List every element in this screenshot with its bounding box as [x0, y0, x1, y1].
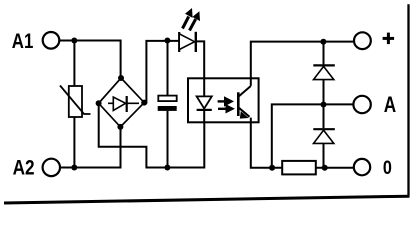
diode D1 [313, 65, 335, 79]
bottom separator line [4, 196, 410, 203]
wire resistor to 0 terminal [316, 167, 354, 169]
wire bridge plus riser to top rail [144, 41, 179, 103]
terminal 0 [354, 159, 370, 175]
LED light arrows [183, 8, 201, 31]
junction dot plus row diode [320, 39, 326, 45]
junction dot bridge top vertex [118, 75, 124, 81]
junction dot bridge right vertex [141, 100, 147, 106]
wire LED cathode to optocoupler anode [197, 41, 204, 96]
junction dot emitter A branch [269, 165, 275, 171]
capacitor C1 [158, 96, 177, 111]
wire bridge minus step to internal ground net [99, 103, 205, 167]
junction dot bottom capacitor [164, 165, 170, 171]
svg-text:A1: A1 [12, 29, 34, 53]
wire opto LED cathode [203, 110, 205, 122]
junction dot bottom varistor [71, 165, 77, 171]
terminal + [354, 32, 371, 49]
resistor R2 [282, 161, 316, 175]
junction dot top rail varistor [71, 38, 77, 44]
svg-text:A: A [384, 92, 396, 117]
junction dot 0 row diode [322, 165, 328, 171]
wire D2 to 0 row [323, 143, 325, 167]
svg-text:A2: A2 [13, 156, 35, 179]
right border line [407, 4, 409, 196]
wire emitter lead to resistor [251, 118, 282, 168]
phototransistor Q1 [238, 86, 251, 119]
junction dot top rail capacitor [164, 38, 170, 44]
label + [383, 33, 395, 45]
varistor R1 [60, 86, 91, 118]
indicator LED [179, 32, 196, 52]
svg-text:0: 0 [383, 157, 392, 179]
terminal A1 [43, 32, 60, 49]
junction dot A row diode [321, 102, 327, 108]
wire A1 top rail [59, 41, 120, 79]
wire A row to D2 [323, 105, 325, 129]
wire A2 bottom to bridge bottom vertex [60, 127, 121, 168]
bridge rectifier [99, 78, 145, 127]
terminal A [353, 96, 370, 113]
wire capacitor top lead [167, 41, 169, 96]
opto light arrows [218, 96, 235, 113]
junction dot bridge left vertex [96, 100, 102, 106]
junction dot bridge bottom vertex [117, 124, 123, 130]
optocoupler U1 box [188, 78, 259, 122]
wire collector riser and plus rail [251, 42, 354, 86]
terminal A2 [43, 159, 60, 176]
wire varistor column lower [73, 117, 75, 168]
wire capacitor bottom lead [167, 111, 169, 168]
wire D1 to A row [323, 80, 325, 105]
opto LED [197, 96, 212, 110]
wire A branch [272, 104, 354, 167]
wire diode column D1 [323, 42, 325, 65]
wire varistor column upper [73, 41, 75, 87]
diode D2 [313, 129, 335, 143]
